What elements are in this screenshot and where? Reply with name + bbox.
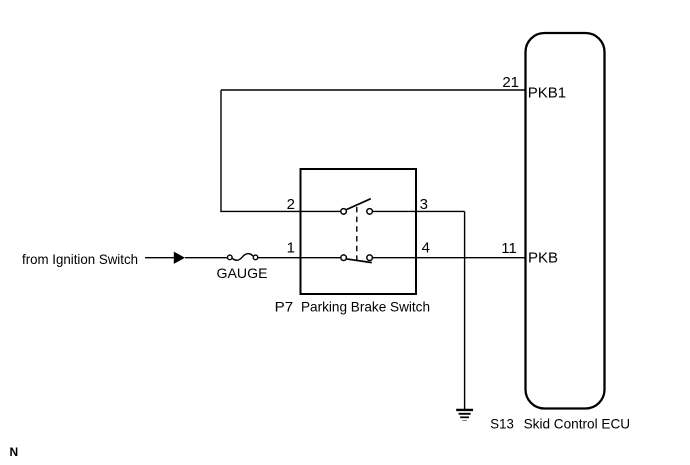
ECU S13 box [526,33,605,409]
svg-text:P7: P7 [275,298,294,314]
svg-text:N: N [10,445,19,459]
wire vertical drop on the left [220,90,222,211]
svg-text:11: 11 [501,240,517,257]
switch contact upper pins 2-3 [341,199,373,215]
svg-text:Parking Brake Switch: Parking Brake Switch [301,298,430,314]
switch contact lower pins 1-4 [341,255,373,263]
wire into switch pin 2 [220,210,341,212]
flow arrow [174,252,185,264]
wire switch pin 3 to ground (vertical) [464,211,466,409]
wire fuse to switch pin 1 [258,257,341,259]
svg-text:1: 1 [287,239,295,256]
svg-text:3: 3 [420,196,428,213]
svg-text:PKB: PKB [528,249,558,266]
fuse GAUGE [228,254,258,261]
svg-text:2: 2 [287,196,295,213]
svg-text:Skid Control ECU: Skid Control ECU [524,415,631,431]
switch P7 box [301,169,417,294]
wire switch pin 4 to ECU pin 11 [372,257,525,259]
svg-text:21: 21 [502,74,519,91]
svg-text:from Ignition Switch: from Ignition Switch [22,251,138,267]
wire arrow to fuse [185,257,227,259]
ground [456,410,473,421]
wire switch pin 3 to ground (horizontal) [372,210,464,212]
svg-text:PKB1: PKB1 [528,84,566,101]
wire PKB1: ECU pin 21 across the top [221,89,526,91]
svg-text:GAUGE: GAUGE [217,265,268,281]
svg-text:4: 4 [422,239,430,256]
mechanical linkage dashed line [356,207,358,260]
svg-text:S13: S13 [490,415,514,431]
wire from ignition switch to arrow [145,257,175,259]
